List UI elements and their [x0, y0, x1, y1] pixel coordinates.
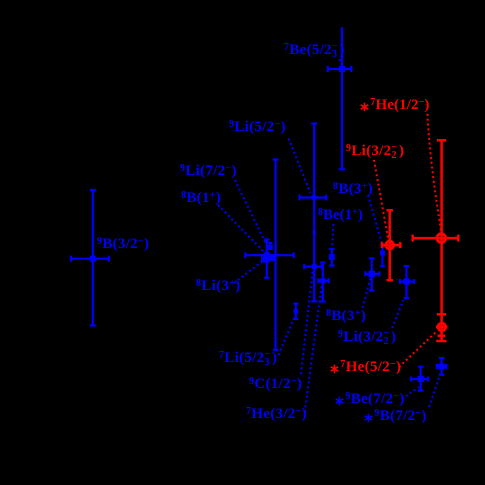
label L1 9B(3/2-)	[97, 238, 149, 251]
red point R3 *7He(5/2-) vertical error bar caps	[436, 336, 446, 341]
data point P10 7Li(5/2_3-) vertical error bar	[293, 304, 298, 319]
leader dots from label L12 9Li(3/2_2-) blue to P13	[392, 300, 404, 328]
data point P10 7Li(5/2_3-) square marker	[294, 309, 299, 314]
leader dots from label L11 8B(3+) bottom to P11	[363, 278, 371, 308]
leader dots from label L9 red 9Li(3/2_2-) to R1	[374, 160, 388, 238]
cluster point C3 square marker	[261, 256, 270, 262]
data point P14 *9Be(7/2-) square marker	[418, 376, 424, 382]
data point P12 8B(3+) top vertical error bar	[380, 246, 385, 266]
label L14 9C(1/2-)	[249, 378, 302, 391]
data point P11 8B(3+) vertical error bar	[369, 258, 375, 290]
label L16 *7He(5/2-) red	[329, 360, 401, 374]
leader dots from label L18 *9B(7/2-) to P15	[429, 375, 440, 407]
label L7 8B(3+) top	[333, 183, 373, 196]
data point P3 9Li(5/2-) square marker	[312, 195, 317, 200]
data point P13 9Li(3/2_2-) blue vertical error bar	[404, 266, 410, 298]
data point P2 7Be(5/2_3-) horizontal error bar	[328, 66, 352, 72]
label L10 *7He(1/2-) red	[359, 98, 430, 112]
cluster main point C2 square marker	[264, 252, 270, 258]
data point P13 9Li(3/2_2-) blue square marker	[403, 278, 409, 284]
label L15 7He(3/2-)	[246, 408, 307, 421]
leader dots from label L14 9C(1/2-) to P7	[301, 272, 313, 374]
data point P11 8B(3+) horizontal error bar	[365, 271, 379, 276]
label L4 9Li(7/2-)	[180, 165, 237, 178]
tall vertical error bar through cluster x=275.6	[273, 160, 279, 350]
red point R3 open circle marker	[438, 323, 446, 331]
red point R3 short horizontal bar	[436, 326, 448, 329]
data point P9 8Be(1+) square marker	[329, 254, 335, 260]
data point P1 9B(3/2-) square marker	[90, 256, 96, 262]
label L11 8B(3+) bottom	[326, 310, 366, 323]
leader dots from label L5 8B(1+) to cluster	[218, 205, 264, 252]
cluster point C1 small vertical bar with top cap	[268, 243, 272, 248]
red point R2 horizontal error bar	[413, 235, 459, 242]
cluster main point C2 wide horizontal error bar	[245, 252, 293, 258]
data point P8 square marker	[320, 278, 325, 283]
data point P13 9Li(3/2_2-) blue horizontal error bar	[400, 279, 414, 284]
data point P7 9C(1/2-) horizontal error bar	[304, 264, 322, 269]
cluster main point C2 vertical error bar	[264, 239, 269, 277]
leader dots from label L8 8Be(1+) to P9	[332, 224, 334, 248]
label L5 8B(1+)	[181, 192, 221, 205]
data point P14 *9Be(7/2-) vertical error bar	[418, 367, 424, 391]
leader dots from label L2 to P2	[340, 59, 343, 65]
data point P9 8Be(1+) vertical error bar	[329, 249, 335, 266]
data point P8 8B(3+)? vertical error bar	[320, 263, 326, 302]
label L6 8Li(3+)	[196, 280, 240, 293]
leader dots from label L10 *7He(1/2-) to R2	[428, 114, 442, 230]
red point R1 9Li(3/2_2-) vertical error bar	[387, 210, 393, 280]
data point P3 9Li(5/2-) horizontal error bar	[300, 195, 327, 201]
data point P1 9B(3/2-) vertical error bar	[90, 190, 96, 325]
label L9 9Li(3/2_2-) red	[346, 145, 404, 158]
leader dots from label L13 7Li(5/2_3-) to P10	[279, 318, 295, 355]
label L2 7Be(5/2_3-)	[284, 44, 345, 57]
leader dots from label L17 *9Be(7/2-) to P14	[402, 387, 419, 399]
red point R1 open circle marker	[386, 241, 394, 249]
leader dots from label L7 8B(3+) top to P12	[368, 195, 382, 244]
data point P11 8B(3+) square marker	[369, 271, 375, 277]
label L13 7Li(5/2_3-)	[219, 352, 277, 365]
data point P15 *9B(7/2-) square marker	[439, 363, 445, 369]
red point R1 horizontal error bar	[382, 242, 400, 248]
label L12 9Li(3/2_2-) blue	[338, 331, 396, 344]
red point R2 *7He(1/2-) tall vertical error bar	[437, 140, 446, 341]
red point R2 open circle marker	[437, 234, 446, 243]
cluster point C1 square marker	[268, 245, 273, 250]
data point P2 7Be(5/2_3-) square marker	[339, 66, 345, 72]
leader dots from label L6 8Li(3+) to cluster	[234, 262, 262, 283]
data point P12 8B(3+) top square marker	[380, 251, 385, 256]
data point P14 *9Be(7/2-) horizontal error bar	[411, 377, 428, 382]
data point P1 9B(3/2-) horizontal error bar	[71, 256, 109, 262]
cluster point C4 square marker	[270, 256, 275, 261]
label L17 *9Be(7/2-)	[334, 392, 405, 406]
data point P7 9C(1/2-) square marker	[312, 264, 317, 269]
leader dots from label L3 to P3	[289, 139, 311, 194]
leader dots from label L15 7He(3/2-) to P8	[305, 286, 322, 412]
data point P2 7Be(5/2_3-) vertical error bar	[339, 27, 346, 169]
label L3 9Li(5/2-)	[229, 121, 286, 134]
data point P15 *9B(7/2-) horizontal error bar	[437, 364, 446, 369]
label L8 8Be(1+)	[318, 209, 363, 222]
small dot marker on P3 bar	[313, 231, 316, 234]
data point P3 9Li(5/2-) tall vertical error bar	[311, 124, 317, 302]
data point P15 *9B(7/2-) vertical error bar	[439, 358, 445, 375]
label L18 *9B(7/2-)	[363, 409, 427, 423]
data point P8 horizontal error bar	[318, 278, 328, 283]
leader dots from label L16 *7He(5/2-) to R3	[399, 332, 436, 367]
leader dots from label L4 9Li(7/2-) to cluster	[235, 180, 266, 244]
